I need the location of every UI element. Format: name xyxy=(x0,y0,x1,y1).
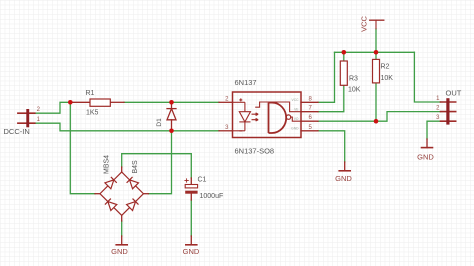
svg-text:6N137: 6N137 xyxy=(235,78,257,87)
svg-text:R2: R2 xyxy=(381,64,390,71)
svg-text:GND: GND xyxy=(183,247,200,256)
svg-text:OUT: OUT xyxy=(446,88,462,97)
svg-text:VO: VO xyxy=(294,117,299,121)
svg-text:6N137-SO8: 6N137-SO8 xyxy=(235,146,275,155)
svg-text:C1: C1 xyxy=(198,176,207,183)
svg-text:B4S: B4S xyxy=(132,160,139,174)
svg-text:MBS4: MBS4 xyxy=(103,155,110,174)
svg-text:GND: GND xyxy=(111,247,128,256)
svg-text:10K: 10K xyxy=(348,87,361,94)
svg-text:VCC: VCC xyxy=(359,16,368,32)
svg-text:GND: GND xyxy=(291,127,299,131)
svg-text:GND: GND xyxy=(335,174,352,183)
svg-text:10K: 10K xyxy=(381,75,394,82)
svg-text:D1: D1 xyxy=(156,118,163,127)
svg-text:GND: GND xyxy=(417,153,434,162)
svg-text:R1: R1 xyxy=(86,90,95,97)
svg-text:DCC-IN: DCC-IN xyxy=(4,127,30,136)
svg-text:1K5: 1K5 xyxy=(86,109,99,116)
svg-text:1000uF: 1000uF xyxy=(200,193,224,200)
svg-text:R3: R3 xyxy=(349,76,358,83)
svg-text:VCC: VCC xyxy=(292,98,300,102)
